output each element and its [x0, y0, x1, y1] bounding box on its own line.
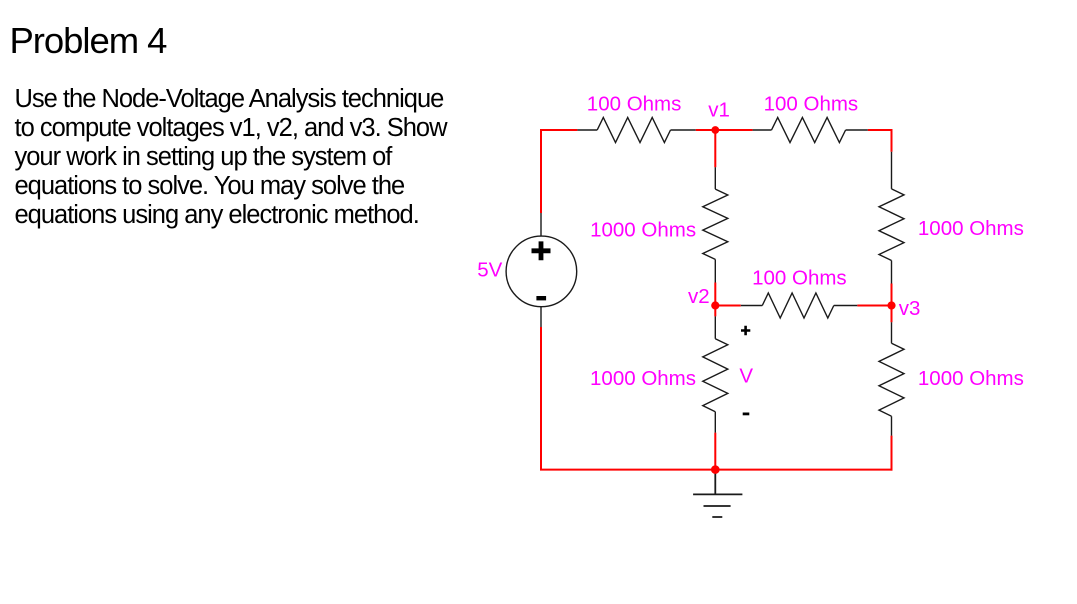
resistor R1 100 Ohms top-left — [577, 118, 695, 143]
wire center rail above v2 — [714, 283, 716, 306]
node v1 dot — [711, 126, 719, 134]
resistor R3 1000 Ohms middle vertical — [703, 167, 728, 282]
node v2 dot — [711, 301, 719, 309]
wire top-middle horizontal through node v1 — [696, 129, 753, 131]
bottom ground node dot — [711, 465, 720, 474]
wire right rail above bottom — [891, 436, 893, 471]
plus polarity mark near V label — [741, 326, 750, 335]
node v3 dot — [887, 301, 895, 309]
wire center rail above bottom node — [714, 433, 716, 470]
wire bottom rail — [540, 469, 893, 471]
voltage source minus sign — [536, 296, 546, 300]
svg-text:100 Ohms: 100 Ohms — [752, 267, 847, 290]
ground symbol — [693, 470, 742, 517]
wire left rail upper — [540, 129, 542, 213]
wire R5 to v3 — [857, 305, 891, 307]
svg-text:v1: v1 — [708, 99, 730, 122]
svg-text:v2: v2 — [688, 285, 710, 308]
resistor R7 1000 Ohms below v3 — [879, 322, 904, 435]
wire R4 lead to v3 — [891, 284, 893, 306]
minus polarity mark near V label — [743, 412, 750, 415]
wire top-right horizontal — [868, 129, 893, 131]
wire left rail lower — [540, 327, 542, 470]
svg-text:1000 Ohms: 1000 Ohms — [590, 367, 696, 390]
svg-text:1000 Ohms: 1000 Ohms — [590, 218, 696, 241]
svg-text:100 Ohms: 100 Ohms — [764, 92, 859, 115]
wire center rail below v1 — [714, 130, 716, 167]
resistor R6 1000 Ohms below v2 — [703, 316, 728, 432]
svg-text:1000 Ohms: 1000 Ohms — [918, 217, 1024, 240]
resistor R5 100 Ohms middle horizontal — [741, 293, 858, 318]
svg-text:1000 Ohms: 1000 Ohms — [918, 367, 1024, 390]
voltage source plus sign — [532, 241, 551, 260]
wire v2 to R5 — [715, 305, 741, 307]
title — [10, 22, 167, 60]
paragraph — [15, 85, 447, 230]
svg-text:5V: 5V — [477, 259, 502, 282]
resistor R2 100 Ohms top-right — [753, 118, 868, 143]
svg-text:100 Ohms: 100 Ohms — [587, 92, 682, 115]
wire right rail upper — [891, 129, 893, 152]
svg-text:v3: v3 — [899, 297, 921, 320]
svg-text:V: V — [739, 364, 753, 387]
resistor R4 1000 Ohms right upper vertical — [879, 152, 904, 284]
voltage source V1 leads — [540, 213, 542, 327]
wire top-left horizontal — [541, 129, 577, 131]
wire below v3 — [891, 306, 893, 323]
wire below v2 — [714, 306, 716, 317]
voltage source V1 circle — [506, 236, 577, 307]
